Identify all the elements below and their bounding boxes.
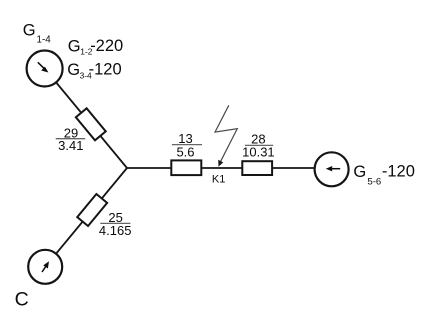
resistor 29/3.41 (rotated rect on upper-left branch) bbox=[76, 108, 106, 140]
arrow inside G5-6 (points W toward node) bbox=[326, 166, 340, 171]
svg-text:G: G bbox=[68, 37, 81, 55]
svg-text:-120: -120 bbox=[382, 162, 415, 180]
fraction 28/10.31 bbox=[242, 132, 275, 160]
resistor 28/10.31 (horizontal) bbox=[242, 161, 272, 175]
svg-text:G: G bbox=[353, 163, 366, 181]
svg-text:C: C bbox=[15, 288, 29, 310]
fraction 25/4.165 bbox=[99, 210, 132, 238]
svg-text:5.6: 5.6 bbox=[176, 144, 194, 159]
wire: node to C branch (lower-left diagonal) bbox=[45, 168, 127, 267]
svg-text:-220: -220 bbox=[90, 37, 123, 55]
svg-text:4.165: 4.165 bbox=[99, 223, 132, 238]
svg-text:G: G bbox=[67, 61, 80, 79]
svg-text:K1: K1 bbox=[212, 174, 225, 186]
svg-text:-120: -120 bbox=[89, 61, 122, 79]
wire: node to G1-4 branch (upper-left diagonal) bbox=[45, 69, 127, 169]
arrow inside C (points NE toward node) bbox=[42, 261, 49, 272]
generator G1-4 (circle, top-left) bbox=[27, 51, 63, 87]
svg-text:3.41: 3.41 bbox=[58, 138, 83, 153]
fraction 13/5.6 bbox=[172, 131, 202, 160]
fault lightning bolt at K1 bbox=[215, 105, 237, 167]
arrow inside G1-4 (points SE toward node) bbox=[38, 62, 49, 72]
resistor 25/4.165 (rotated rect on lower-left branch) bbox=[77, 194, 107, 226]
svg-text:10.31: 10.31 bbox=[242, 145, 275, 160]
svg-text:5-6: 5-6 bbox=[367, 177, 381, 188]
compensator C (circle, bottom-left) bbox=[28, 250, 62, 284]
svg-text:1-4: 1-4 bbox=[37, 35, 52, 46]
wire: horizontal bus from node to G5-6 bbox=[127, 167, 332, 169]
fraction 29/3.41 bbox=[56, 126, 85, 154]
svg-text:G: G bbox=[23, 21, 36, 39]
resistor 13/5.6 (horizontal) bbox=[171, 160, 201, 175]
generator G5-6 (circle, right) bbox=[315, 152, 349, 186]
